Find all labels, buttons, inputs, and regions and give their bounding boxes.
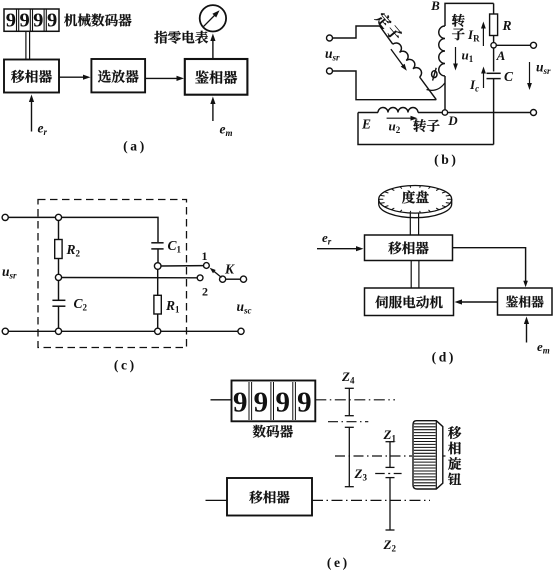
dial rim — [379, 199, 452, 217]
wire middle row to contact 2 — [62, 277, 197, 279]
shaft D dash-dot segments — [206, 499, 228, 501]
block 选放器 — [91, 59, 145, 92]
label 移相旋钮 vertical — [448, 426, 461, 485]
wire D to right terminal — [448, 112, 531, 114]
arrow u_sr down — [529, 62, 531, 86]
shaft dial to phase shifter — [409, 213, 411, 235]
svg-text:2: 2 — [202, 285, 208, 299]
svg-text:(e): (e) — [327, 555, 350, 570]
shaft A dash-dot right segment — [315, 399, 395, 401]
wire top left — [8, 216, 55, 218]
capacitor C2 — [58, 281, 60, 301]
wire A down to C — [493, 48, 495, 72]
shaft C dash-dot — [335, 455, 412, 457]
gear Z3 — [348, 427, 350, 486]
node B corner wire — [445, 3, 494, 26]
wire bottom left — [8, 330, 55, 332]
wire C1 to node J3 — [157, 249, 159, 263]
arrow 鉴相器 to 伺服电动机 — [459, 301, 498, 303]
resistor R — [493, 3, 495, 14]
svg-text:9: 9 — [47, 10, 57, 32]
contact 2 circle — [197, 275, 203, 281]
wire C bottom down — [493, 79, 495, 145]
svg-text:K: K — [224, 262, 235, 277]
wire arrow 选放器 to 鉴相器 — [145, 77, 179, 79]
svg-text:E: E — [361, 117, 371, 132]
wire J3 to contact 1 — [161, 265, 203, 267]
node J3 — [154, 263, 161, 270]
wire bottom right — [161, 330, 238, 332]
wire bottom middle — [62, 330, 155, 332]
wire pivot to output terminal — [226, 278, 241, 280]
svg-text:9: 9 — [276, 386, 291, 418]
node J1 — [55, 214, 61, 220]
wire top to C1 corner — [62, 217, 158, 242]
capacitor C1 — [151, 242, 163, 244]
label 机械数码器 — [64, 14, 131, 27]
svg-text:9: 9 — [19, 10, 29, 32]
arrow u_1 down — [455, 47, 457, 66]
shaft B dash-dot segment — [328, 421, 368, 423]
angle phi arc — [427, 83, 445, 90]
arrow I_R up — [482, 26, 484, 46]
wire A to right terminal — [496, 44, 530, 46]
arrow I_c up — [483, 71, 485, 88]
stator lead diagonal — [380, 26, 393, 44]
svg-text:A: A — [496, 48, 506, 63]
label 转子 bottom — [413, 119, 439, 132]
input arrow e_r (a) — [31, 99, 33, 132]
terminal u_sr lower — [327, 68, 333, 74]
label phi — [432, 71, 437, 78]
contact 1 circle — [204, 263, 210, 269]
svg-text:(a): (a) — [123, 139, 147, 155]
meter needle — [204, 14, 217, 27]
null meter circle — [200, 5, 226, 31]
shaft 移相器 to 伺服电动机 — [410, 261, 412, 289]
switch K pivot — [220, 276, 226, 282]
wire lower terminal to stator bottom — [333, 71, 437, 100]
label 定子 rotated — [374, 11, 404, 43]
label 转子 vertical — [452, 14, 465, 40]
svg-text:(c): (c) — [114, 358, 137, 374]
node A — [491, 43, 496, 48]
bottom rotor lead left — [358, 112, 378, 114]
dashed enclosure box — [38, 200, 187, 348]
knurled knob — [413, 421, 443, 489]
svg-text:D: D — [447, 113, 458, 128]
svg-text:9: 9 — [33, 10, 43, 32]
svg-text:B: B — [430, 0, 440, 13]
stator current arrow — [391, 49, 404, 67]
resistor R2 — [58, 221, 60, 240]
label 指零电表 — [154, 31, 208, 44]
gear Z4 — [348, 388, 350, 415]
wire upper terminal to stator — [333, 26, 380, 38]
stator coil (diagonal) — [393, 43, 422, 77]
block 移相器 (a) — [4, 60, 59, 93]
terminal u_sr upper — [327, 35, 333, 41]
block 移相器 (e) — [227, 478, 312, 516]
arrow u_2 — [387, 117, 414, 119]
wire arrow 移相器 to 选放器 — [59, 76, 86, 78]
terminal right upper — [531, 42, 537, 48]
terminal output lower — [238, 328, 244, 334]
svg-text:(b): (b) — [434, 152, 458, 168]
block 伺服电动机 — [365, 288, 454, 316]
node J4 — [55, 328, 61, 334]
svg-text:9: 9 — [6, 10, 16, 32]
terminal input upper — [2, 214, 8, 220]
svg-text:9: 9 — [297, 386, 312, 418]
arrow e_r input (d) — [317, 248, 359, 250]
switch arm with arrowhead — [213, 270, 222, 277]
terminal output upper — [240, 276, 246, 282]
gear Z1 — [389, 442, 391, 468]
label 度盘 — [402, 190, 429, 203]
rotor coil vertical — [439, 26, 445, 76]
svg-text:9: 9 — [254, 386, 269, 418]
return loop wires — [358, 113, 494, 145]
wire J3 down to R1 — [157, 269, 159, 295]
dial 度盘 ellipse — [379, 186, 452, 214]
svg-text:9: 9 — [233, 386, 248, 418]
mechanical digit counter box 9999 — [4, 9, 59, 32]
label 数码器 — [253, 425, 293, 438]
node J2 — [55, 274, 61, 280]
block 鉴相器 (a) — [185, 59, 248, 95]
node J5 — [155, 328, 161, 334]
svg-text:C: C — [504, 69, 514, 84]
shaft counter to phase shifter — [25, 31, 27, 59]
terminal input lower — [2, 328, 8, 334]
bottom rotor coil — [378, 108, 418, 113]
stator lead diagonal lower — [420, 77, 437, 100]
gear Z2 — [375, 473, 401, 475]
block 移相器 (d) — [365, 235, 453, 261]
dial tick marks — [379, 186, 452, 213]
svg-text:1: 1 — [202, 249, 208, 263]
rotor lead down to D — [444, 76, 446, 110]
block 鉴相器 (d) — [498, 288, 553, 315]
arrow e_m input (d) — [526, 321, 528, 343]
svg-text:R: R — [501, 18, 511, 33]
input arrow e_m (a) — [212, 101, 214, 121]
digit counter box 9999 (e) — [232, 381, 316, 422]
node D — [442, 110, 447, 115]
shaft A solid left segment — [211, 399, 232, 401]
resistor R1 — [154, 295, 161, 314]
terminal right lower — [531, 110, 537, 116]
bottom rotor lead right — [418, 112, 442, 114]
capacitor C — [487, 72, 501, 74]
svg-text:(d): (d) — [432, 350, 456, 366]
wire arrow 鉴相器 to null meter — [212, 38, 214, 59]
wire 移相器 to 鉴相器 — [453, 248, 526, 284]
